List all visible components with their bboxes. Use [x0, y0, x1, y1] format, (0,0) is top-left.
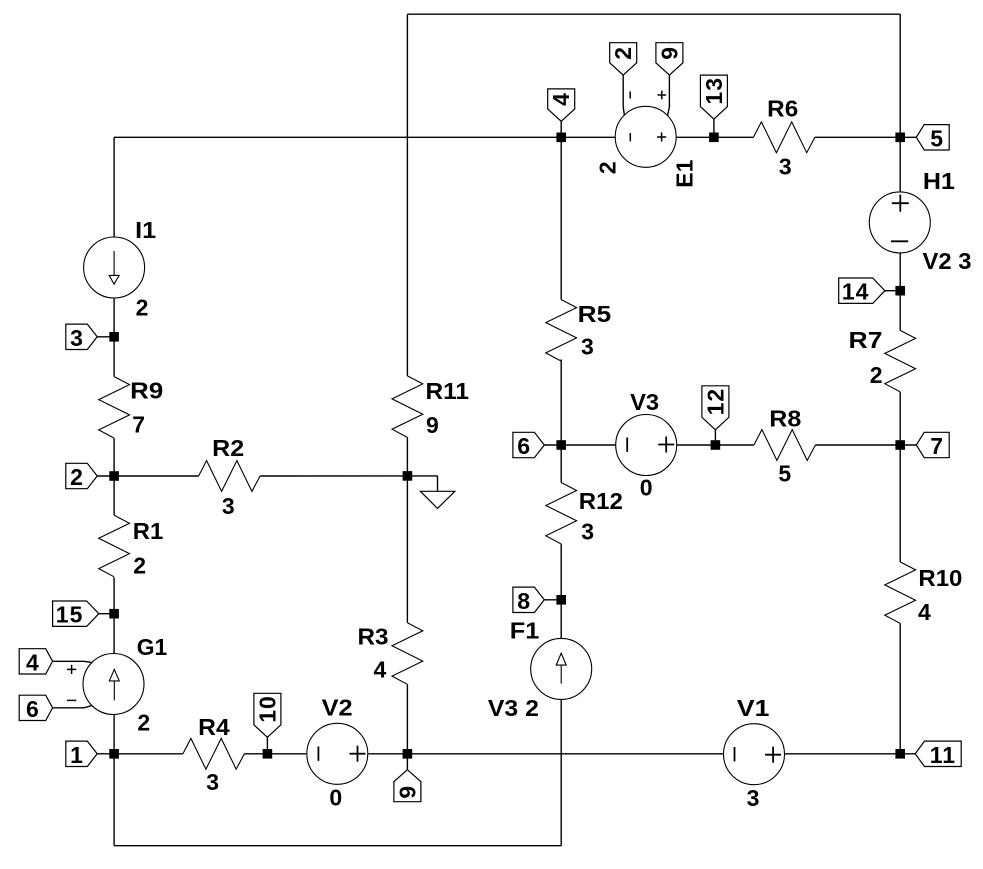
- node 2: [109, 471, 119, 481]
- flag 4 top: [548, 89, 575, 137]
- flag 2: [66, 463, 114, 490]
- node 8: [556, 595, 566, 605]
- wire right top: [899, 14, 901, 137]
- wire I1 to node 3: [113, 298, 115, 337]
- node 4: [556, 133, 566, 143]
- svg-text:4: 4: [26, 649, 39, 675]
- svg-text:R10: R10: [918, 565, 962, 591]
- svg-text:V3 2: V3 2: [488, 695, 539, 721]
- svg-text:2: 2: [610, 46, 636, 60]
- node 14: [895, 286, 905, 296]
- svg-text:2: 2: [137, 709, 150, 735]
- svg-text:10: 10: [254, 695, 280, 723]
- resistor R6: [753, 95, 815, 179]
- wire H1 to node14: [899, 253, 901, 291]
- wire R4 to V2: [244, 753, 306, 755]
- node 5: [895, 133, 905, 143]
- svg-text:G1: G1: [137, 634, 168, 660]
- flag 6 (G1-): [19, 695, 52, 722]
- wire R5 to node6: [560, 359, 562, 445]
- svg-text:R11: R11: [426, 378, 470, 404]
- flag 2 (E1-): [610, 43, 637, 75]
- resistor R2: [199, 435, 261, 519]
- wire node6 to V3: [561, 444, 615, 446]
- wire node3 to R9: [113, 337, 115, 377]
- svg-text:13: 13: [701, 77, 727, 105]
- svg-text:V3: V3: [630, 389, 659, 415]
- wire R3 to bottom node: [406, 684, 408, 754]
- node 11: [895, 749, 905, 759]
- svg-text:0: 0: [329, 784, 342, 810]
- flag 10: [254, 693, 281, 754]
- wire mid column top: [406, 14, 408, 376]
- svg-text:R7: R7: [849, 327, 883, 353]
- flag 1: [66, 741, 114, 768]
- wire F1 down to bottom rail: [560, 699, 562, 845]
- svg-text:F1: F1: [510, 617, 540, 643]
- wire node5 to H1: [899, 137, 901, 192]
- resistor R11: [392, 376, 469, 438]
- wire G1 to node1: [113, 714, 115, 753]
- wire V3 to node12: [677, 444, 716, 446]
- node 13: [709, 133, 719, 143]
- voltage source V3: [616, 389, 677, 501]
- svg-text:7: 7: [930, 433, 943, 459]
- ground: [407, 476, 455, 509]
- wire node13 to R6: [714, 136, 754, 138]
- wire R8 to node7: [815, 444, 900, 446]
- wire R1 to node15: [113, 577, 115, 613]
- G1 + control lead: [53, 661, 93, 674]
- svg-text:R6: R6: [767, 95, 798, 121]
- wire node2 to R1: [113, 476, 115, 515]
- wire mid node to V1: [407, 753, 723, 755]
- E1 - control lead: [623, 75, 630, 115]
- wire R2 to gnd node: [260, 475, 407, 477]
- resistor R3: [358, 623, 423, 685]
- wire node6 to R12: [560, 445, 562, 483]
- resistor R4: [183, 714, 245, 795]
- wire E1 to node13: [676, 136, 714, 138]
- flag 11: [900, 741, 961, 768]
- svg-text:R9: R9: [130, 377, 163, 403]
- svg-text:8: 8: [517, 588, 530, 614]
- svg-text:R12: R12: [579, 488, 623, 514]
- resistor R9: [99, 377, 164, 439]
- wire top border: [407, 13, 900, 15]
- flag 5: [900, 125, 949, 152]
- svg-text:1: 1: [70, 742, 83, 768]
- svg-text:R5: R5: [578, 301, 612, 327]
- wire gnd node to R3: [406, 476, 408, 623]
- flag 6 mid: [513, 432, 561, 459]
- svg-text:2: 2: [595, 161, 621, 174]
- wire R12 to node8: [560, 544, 562, 600]
- svg-text:E1: E1: [671, 160, 697, 188]
- svg-text:9: 9: [394, 785, 420, 799]
- wire node1 down: [113, 754, 115, 846]
- svg-text:6: 6: [26, 696, 39, 722]
- node 3: [109, 332, 119, 342]
- flag 4 (G1+): [19, 649, 52, 676]
- node 10: [263, 749, 273, 759]
- controlled source G1: [83, 634, 167, 735]
- svg-text:R2: R2: [212, 435, 244, 461]
- flag 8: [513, 587, 561, 614]
- flag 14: [839, 278, 901, 305]
- svg-text:V1: V1: [737, 695, 770, 721]
- svg-text:2: 2: [870, 362, 883, 388]
- wire bottom-left rail: [114, 845, 561, 847]
- ground node: [403, 471, 413, 481]
- wire left drop: [113, 137, 115, 237]
- node 15: [109, 609, 119, 619]
- controlled source H1: [869, 168, 971, 274]
- node 1: [109, 749, 119, 759]
- svg-text:3: 3: [779, 153, 792, 179]
- svg-text:4: 4: [918, 599, 931, 625]
- wire R6 to node5: [815, 136, 900, 138]
- wire R7 to node7: [899, 392, 901, 445]
- svg-text:15: 15: [56, 602, 84, 628]
- flag 9: [394, 754, 421, 802]
- controlled source F1: [488, 617, 592, 721]
- resistor R12: [546, 483, 623, 545]
- wire node2 to R2: [114, 475, 199, 477]
- svg-text:4: 4: [548, 92, 574, 106]
- svg-text:3: 3: [581, 334, 594, 360]
- voltage source V2: [307, 695, 368, 811]
- svg-text:5: 5: [930, 125, 943, 151]
- svg-text:9: 9: [656, 46, 682, 60]
- node 12: [711, 440, 721, 450]
- svg-text:14: 14: [842, 279, 870, 305]
- flag 13: [700, 75, 727, 137]
- wire node15 to G1: [113, 614, 115, 654]
- wire node12 to R8: [715, 444, 754, 446]
- svg-text:2: 2: [70, 464, 83, 490]
- flag 3: [66, 324, 114, 351]
- svg-text:6: 6: [517, 433, 530, 459]
- svg-text:3: 3: [70, 325, 83, 351]
- wire node4 to E1: [561, 136, 615, 138]
- resistor R7: [849, 327, 916, 392]
- flag 12: [702, 386, 729, 445]
- svg-text:2: 2: [133, 553, 146, 579]
- svg-text:R3: R3: [358, 624, 389, 650]
- flag 9 (E1+): [656, 43, 683, 75]
- svg-text:R4: R4: [198, 714, 230, 740]
- voltage source V1: [724, 695, 785, 811]
- wire V1 to node11: [785, 753, 901, 755]
- flag 15: [53, 601, 115, 628]
- resistor R1: [99, 515, 164, 578]
- resistor R5: [546, 300, 612, 362]
- svg-text:3: 3: [222, 493, 235, 519]
- flag 7: [900, 432, 949, 459]
- svg-text:7: 7: [132, 411, 145, 437]
- node 7: [895, 440, 905, 450]
- resistor R8: [754, 405, 816, 486]
- svg-text:2: 2: [136, 295, 149, 321]
- E1 + control lead: [658, 75, 670, 115]
- svg-text:12: 12: [702, 388, 728, 416]
- current source I1: [84, 217, 157, 321]
- svg-text:V2: V2: [322, 695, 353, 721]
- resistor R10: [885, 562, 963, 625]
- svg-text:3: 3: [581, 519, 594, 545]
- wire node14 to R7: [899, 291, 901, 331]
- svg-text:11: 11: [930, 742, 956, 768]
- wire lower rail 1-10: [114, 753, 183, 755]
- G1 - control lead: [53, 700, 93, 707]
- svg-text:5: 5: [778, 460, 791, 486]
- svg-text:R1: R1: [133, 518, 164, 544]
- svg-text:H1: H1: [923, 168, 955, 194]
- svg-text:3: 3: [206, 769, 219, 795]
- wire node4 down to R5: [560, 137, 562, 299]
- wire R11 to gnd node: [406, 437, 408, 476]
- wire node8 to F1: [560, 600, 562, 639]
- wire R9 to node2: [113, 438, 115, 476]
- wire R10 to node11: [899, 623, 901, 753]
- svg-text:3: 3: [747, 785, 760, 811]
- svg-text:4: 4: [374, 656, 387, 682]
- controlled source E1: [595, 106, 698, 187]
- svg-text:0: 0: [640, 474, 653, 500]
- wire V2 to mid node: [368, 753, 407, 755]
- svg-text:I1: I1: [135, 217, 156, 243]
- node 6: [556, 440, 566, 450]
- svg-text:V2 3: V2 3: [923, 248, 972, 274]
- wire upper rail left: [114, 136, 561, 138]
- svg-text:R8: R8: [769, 405, 801, 431]
- node 9 junction: [403, 749, 413, 759]
- svg-text:9: 9: [426, 412, 439, 438]
- wire node7 to R10: [899, 445, 901, 562]
